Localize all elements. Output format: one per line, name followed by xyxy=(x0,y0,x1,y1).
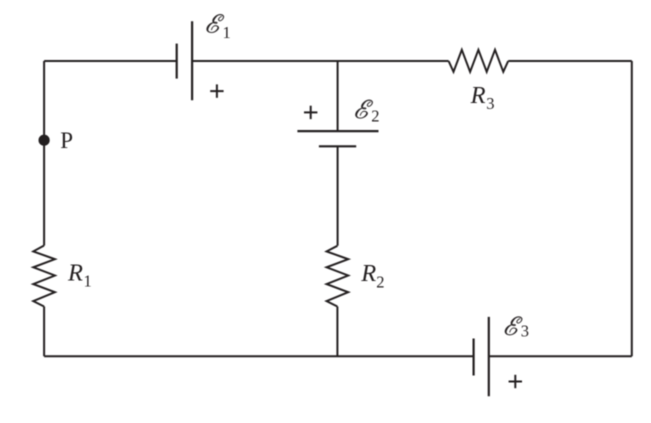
battery E1 short plate (negative) xyxy=(176,44,178,79)
svg-text:1: 1 xyxy=(223,23,231,42)
emf E2 script glyph xyxy=(355,100,372,119)
wire middle vertical lower xyxy=(336,307,338,357)
wire right vertical xyxy=(631,61,633,356)
wire left vertical upper xyxy=(43,61,45,246)
svg-text:2: 2 xyxy=(371,107,379,126)
svg-text:R: R xyxy=(470,82,486,109)
emf E3 script glyph xyxy=(505,317,522,336)
wire left vertical lower xyxy=(43,307,45,357)
svg-text:3: 3 xyxy=(486,94,494,113)
svg-text:P: P xyxy=(60,128,73,153)
battery E2 long plate (positive) xyxy=(297,130,378,132)
plus sign of E3 xyxy=(509,375,522,388)
node P dot xyxy=(39,135,50,146)
wire top-middle segment xyxy=(192,60,449,62)
svg-text:2: 2 xyxy=(376,272,384,291)
battery E2 short plate (negative) xyxy=(319,145,356,147)
resistor R2 zigzag xyxy=(327,246,349,307)
plus sign of E1 xyxy=(210,84,223,97)
wire top-left segment xyxy=(44,60,177,62)
wire middle vertical upper xyxy=(337,61,339,131)
battery E3 short plate (negative) xyxy=(473,339,475,376)
svg-text:1: 1 xyxy=(84,272,92,291)
emf E1 script glyph xyxy=(207,14,224,33)
svg-text:R: R xyxy=(360,260,376,287)
resistor R1 zigzag xyxy=(33,246,55,307)
resistor R3 zigzag xyxy=(449,50,509,72)
wire top-right segment xyxy=(508,60,632,62)
wire bottom-right segment xyxy=(489,355,632,357)
battery E1 long plate (positive) xyxy=(191,21,193,100)
plus sign of E2 xyxy=(304,106,317,119)
wire middle vertical mid xyxy=(337,146,339,246)
svg-text:R: R xyxy=(67,260,83,287)
wire bottom-left segment xyxy=(44,355,474,357)
svg-text:3: 3 xyxy=(521,322,529,341)
battery E3 long plate (positive) xyxy=(488,317,490,396)
